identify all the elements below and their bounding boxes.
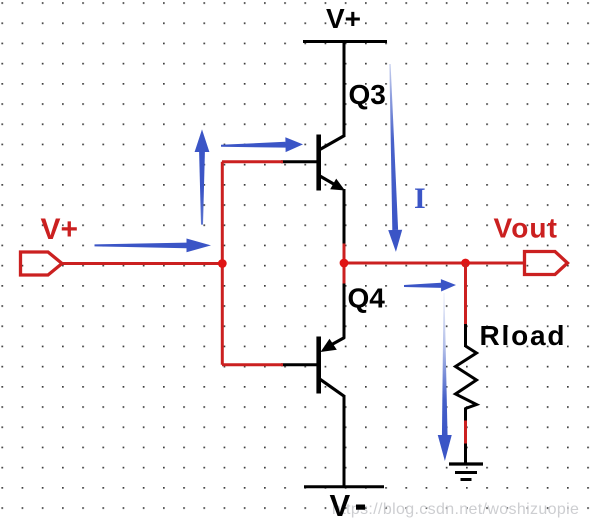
svg-text:Vout: Vout [494, 213, 559, 244]
svg-text:I: I [414, 182, 426, 215]
svg-text:V+: V+ [41, 213, 79, 246]
wire: Rload to ground (red segment) [464, 421, 467, 445]
wire: rail to Q3 collector [343, 40, 346, 137]
wire: Q3 base lead (black) [281, 160, 317, 163]
wire: output node to Vout port (red) [344, 262, 526, 265]
current arrow: into Q3 base (blue, right) [221, 137, 303, 153]
svg-text:Q3: Q3 [349, 79, 386, 110]
wire: Q4 collector to V- rail [343, 395, 346, 488]
transistor Q4 (PNP) [319, 337, 345, 397]
svg-text:https://blog.csdn.net/woshizuo: https://blog.csdn.net/woshizuopie [332, 501, 579, 518]
wire: down to Q4 emitter (black part) [343, 284, 346, 339]
current arrow: up along base branch (blue, up) [195, 129, 210, 224]
node A junction dot [218, 259, 227, 268]
svg-text:V+: V+ [326, 3, 361, 34]
wire: V- bottom power rail [304, 485, 384, 488]
wire: node A vertical (red) [221, 162, 224, 365]
wire: upper branch to Q3 base (red) [222, 160, 283, 163]
wire: junction down to Rload (red) [464, 263, 467, 325]
svg-text:V: V [330, 488, 351, 523]
wire: input to node A (red) [61, 262, 223, 265]
current arrow I: Q3 to output (blue, down) [383, 64, 403, 252]
current arrow: through Rload to ground (blue, down) [437, 293, 452, 461]
transistor Q3 (NPN) [319, 135, 345, 191]
node: output junction dot [340, 259, 349, 268]
current arrow: into node A (blue, right) [95, 239, 212, 253]
wire: lower branch to Q4 base (red) [222, 363, 283, 366]
wire: V+ top power rail [303, 40, 387, 43]
node: Rload junction dot [461, 259, 470, 268]
label V- (bottom rail) [330, 488, 366, 523]
svg-text:Q4: Q4 [348, 283, 386, 314]
current arrow: toward Rload (blue, right, small) [404, 279, 456, 292]
port: Vout output terminal [525, 252, 568, 275]
wire: Rload to ground (black segment) [464, 444, 467, 465]
wire: output node down to Q4 emitter (red part) [343, 263, 346, 284]
wire: Q3 emitter down (black) [343, 189, 346, 244]
resistor Rload [456, 324, 477, 422]
wire: Q3 emitter to output node (red) [343, 244, 346, 265]
wire: Q4 base lead (black) [281, 363, 317, 366]
svg-text:Rload: Rload [480, 320, 567, 351]
port: V+ input terminal [21, 252, 63, 275]
ground symbol [449, 464, 483, 480]
